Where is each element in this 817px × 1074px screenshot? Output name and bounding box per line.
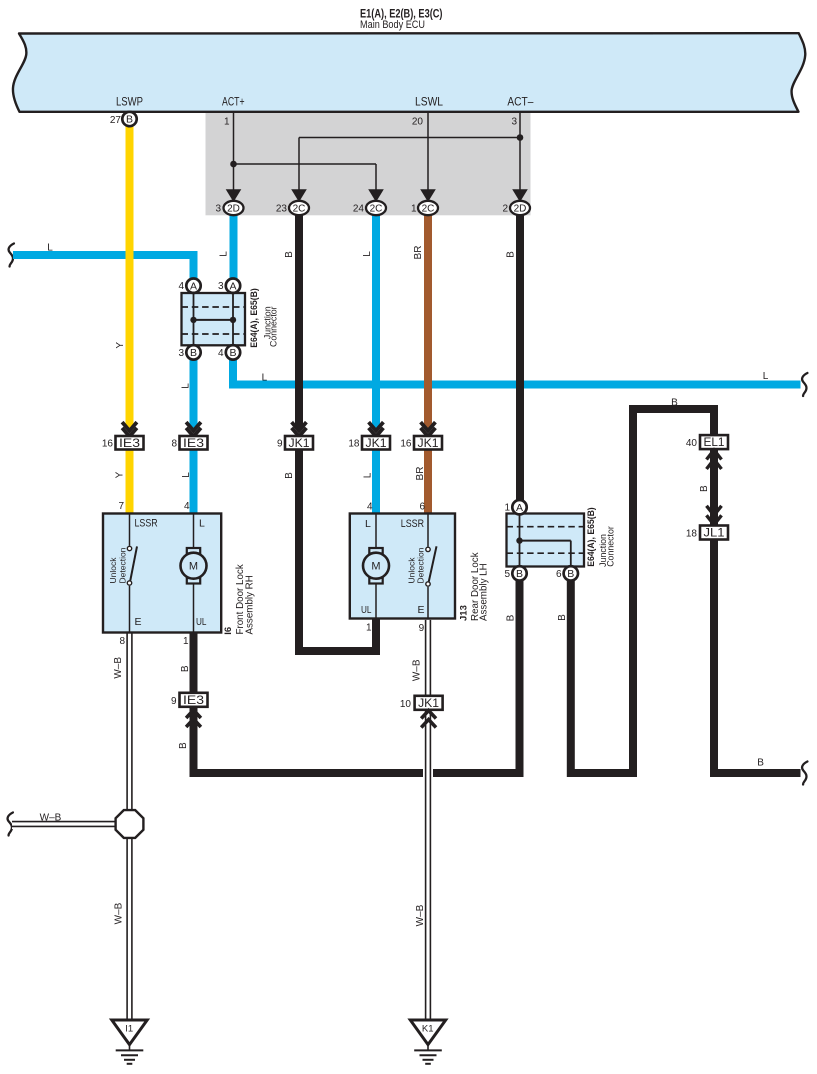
svg-text:27: 27 xyxy=(110,115,122,126)
svg-text:23: 23 xyxy=(276,204,288,215)
svg-text:3: 3 xyxy=(511,117,517,128)
svg-text:20: 20 xyxy=(412,117,424,128)
svg-text:UL: UL xyxy=(361,604,372,616)
svg-text:Connector: Connector xyxy=(606,526,616,567)
svg-text:8: 8 xyxy=(119,636,125,647)
svg-text:W–B: W–B xyxy=(412,659,423,681)
svg-text:M: M xyxy=(189,561,198,573)
svg-text:JK1: JK1 xyxy=(366,438,387,450)
svg-text:LSWL: LSWL xyxy=(415,97,444,109)
svg-text:BR: BR xyxy=(415,467,426,481)
svg-text:L: L xyxy=(763,371,769,382)
svg-text:I1: I1 xyxy=(125,1024,133,1035)
svg-text:2: 2 xyxy=(502,204,508,215)
svg-text:Main Body ECU: Main Body ECU xyxy=(360,19,425,31)
svg-text:IE3: IE3 xyxy=(183,695,204,707)
svg-text:LSWP: LSWP xyxy=(116,97,143,109)
svg-text:W–B: W–B xyxy=(113,902,124,924)
svg-text:9: 9 xyxy=(419,623,425,634)
svg-text:2C: 2C xyxy=(370,203,383,214)
svg-text:B: B xyxy=(699,485,710,492)
svg-text:E: E xyxy=(418,604,425,616)
svg-text:B: B xyxy=(506,251,517,258)
svg-text:L: L xyxy=(365,518,371,530)
svg-text:B: B xyxy=(229,347,236,359)
svg-text:4: 4 xyxy=(367,501,373,512)
svg-text:18: 18 xyxy=(348,439,360,450)
svg-text:Assembly LH: Assembly LH xyxy=(478,563,489,621)
svg-text:9: 9 xyxy=(277,439,283,450)
svg-text:4: 4 xyxy=(218,348,224,359)
svg-text:K1: K1 xyxy=(422,1024,434,1035)
svg-text:M: M xyxy=(371,561,380,573)
svg-text:B: B xyxy=(671,397,678,408)
svg-text:W–B: W–B xyxy=(415,904,426,926)
svg-text:L: L xyxy=(47,242,53,253)
svg-text:1: 1 xyxy=(411,204,417,215)
svg-text:8: 8 xyxy=(171,439,177,450)
svg-text:B: B xyxy=(190,347,197,359)
svg-text:9: 9 xyxy=(171,696,177,707)
svg-text:E64(A), E65(B): E64(A), E65(B) xyxy=(249,288,259,348)
svg-text:JL1: JL1 xyxy=(704,528,725,540)
svg-text:1: 1 xyxy=(366,622,372,633)
svg-text:JK1: JK1 xyxy=(418,438,439,450)
svg-text:E: E xyxy=(135,616,142,628)
svg-text:2C: 2C xyxy=(293,203,306,214)
svg-text:7: 7 xyxy=(118,501,124,512)
svg-text:ACT+: ACT+ xyxy=(222,97,245,109)
svg-text:16: 16 xyxy=(102,439,114,450)
svg-text:B: B xyxy=(284,472,295,479)
svg-text:L: L xyxy=(362,251,373,257)
svg-text:10: 10 xyxy=(400,699,412,710)
svg-text:ACT–: ACT– xyxy=(507,97,534,109)
svg-text:Connector: Connector xyxy=(269,306,279,347)
svg-text:L: L xyxy=(362,472,373,478)
svg-text:Detection: Detection xyxy=(117,547,127,583)
svg-text:18: 18 xyxy=(686,529,698,540)
svg-text:B: B xyxy=(557,614,568,621)
svg-text:16: 16 xyxy=(400,439,412,450)
svg-text:L: L xyxy=(262,372,268,383)
svg-text:4: 4 xyxy=(184,501,190,512)
svg-text:A: A xyxy=(190,280,197,292)
svg-text:Y: Y xyxy=(115,471,126,478)
svg-text:40: 40 xyxy=(686,438,698,449)
svg-text:3: 3 xyxy=(215,204,221,215)
svg-text:5: 5 xyxy=(504,569,510,580)
svg-text:Y: Y xyxy=(115,342,126,349)
svg-text:BR: BR xyxy=(413,246,424,260)
svg-text:2D: 2D xyxy=(227,203,240,214)
svg-text:2C: 2C xyxy=(422,203,435,214)
svg-text:B: B xyxy=(284,251,295,258)
svg-text:B: B xyxy=(757,758,764,769)
svg-text:4: 4 xyxy=(178,281,184,292)
svg-text:B: B xyxy=(516,568,523,580)
svg-text:L: L xyxy=(181,472,192,478)
svg-text:A: A xyxy=(516,502,523,514)
svg-text:3: 3 xyxy=(178,348,184,359)
svg-text:UL: UL xyxy=(196,616,207,628)
svg-text:W–B: W–B xyxy=(40,812,62,823)
svg-text:3: 3 xyxy=(218,281,224,292)
svg-text:6: 6 xyxy=(556,569,562,580)
svg-text:W–B: W–B xyxy=(113,657,124,679)
svg-text:B: B xyxy=(505,614,516,621)
svg-text:L: L xyxy=(218,251,229,257)
svg-text:6: 6 xyxy=(419,501,425,512)
svg-text:E64(A), E65(B): E64(A), E65(B) xyxy=(586,507,596,567)
svg-text:24: 24 xyxy=(353,204,365,215)
svg-text:Detection: Detection xyxy=(415,547,425,583)
svg-text:B: B xyxy=(178,742,189,749)
svg-text:I6: I6 xyxy=(223,627,234,635)
svg-text:B: B xyxy=(567,568,574,580)
svg-text:2D: 2D xyxy=(514,203,527,214)
svg-text:B: B xyxy=(180,665,191,672)
svg-text:1: 1 xyxy=(183,636,189,647)
svg-text:JK1: JK1 xyxy=(289,438,310,450)
svg-text:IE3: IE3 xyxy=(119,438,140,450)
svg-text:B: B xyxy=(126,114,133,126)
svg-text:LSSR: LSSR xyxy=(401,518,424,530)
svg-text:LSSR: LSSR xyxy=(135,517,158,529)
svg-text:L: L xyxy=(199,517,205,529)
svg-text:IE3: IE3 xyxy=(183,438,204,450)
svg-text:J13: J13 xyxy=(458,605,469,621)
svg-text:1: 1 xyxy=(504,503,510,514)
svg-text:A: A xyxy=(229,280,236,292)
svg-text:Assembly RH: Assembly RH xyxy=(244,575,255,634)
svg-text:1: 1 xyxy=(224,117,230,128)
svg-text:L: L xyxy=(180,383,191,389)
